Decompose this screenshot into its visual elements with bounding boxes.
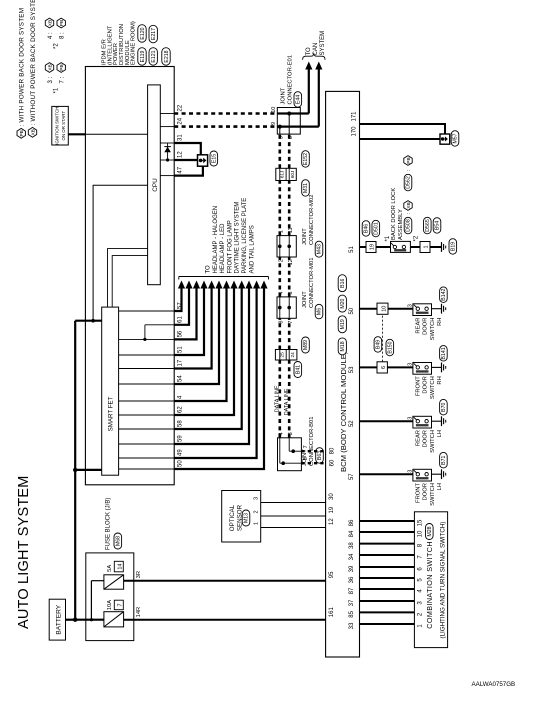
svg-text:59: 59 — [178, 435, 184, 442]
BCM comb pin labels — [349, 519, 355, 629]
fuse block box — [86, 553, 134, 641]
svg-text:AND TAIL LAMPS: AND TAIL LAMPS — [249, 225, 255, 273]
wire headlamp output 6 — [174, 281, 222, 385]
svg-text:CPU: CPU — [152, 178, 159, 192]
note *2 — [45, 18, 65, 49]
connector B54 — [433, 218, 441, 234]
wire headlamp output 2 — [174, 281, 192, 325]
bracket headlamp outputs — [179, 277, 269, 280]
option PB hex — [404, 156, 412, 166]
svg-text:B19: B19 — [451, 242, 457, 251]
label COMBINATION SWITCH — [425, 541, 434, 629]
node battery junction — [73, 618, 77, 622]
wire CPU pin 24 internal — [160, 126, 174, 128]
svg-text:4 :: 4 : — [48, 32, 54, 39]
svg-text:ENGINE ROOM): ENGINE ROOM) — [131, 21, 137, 65]
wire headlamp output 3 — [174, 281, 200, 340]
wire CPU pin 12 internal — [160, 159, 174, 161]
wire CAN pair dashed — [280, 257, 289, 297]
svg-text:3: 3 — [288, 432, 294, 435]
wire CAN pair dashed — [280, 134, 289, 168]
svg-text:LH: LH — [437, 430, 443, 437]
svg-text:JOINT: JOINT — [302, 291, 308, 308]
wire connector 1 to ground — [430, 246, 442, 248]
node trunk-CPU tap — [91, 319, 95, 323]
svg-text:6: 6 — [381, 366, 387, 369]
svg-text:FRONT FOG LAMP: FRONT FOG LAMP — [227, 220, 233, 273]
svg-text:14R: 14R — [136, 607, 142, 618]
svg-text:DOOR: DOOR — [423, 483, 429, 500]
connector M68 — [114, 533, 122, 549]
wire lock assembly to connector 1 — [410, 246, 420, 248]
svg-text:E152: E152 — [303, 153, 309, 165]
svg-text:B49: B49 — [376, 340, 382, 349]
M02 pin numbers — [278, 227, 294, 265]
rear door switch RH chain — [360, 287, 448, 340]
connector E44 — [294, 92, 302, 108]
connector D562 — [404, 169, 412, 191]
back door lock assembly — [391, 241, 411, 252]
connector B150 — [386, 339, 394, 356]
wire headlamp output 10 — [174, 281, 252, 445]
svg-text:: WITHOUT POWER BACK DOOR SYST: : WITHOUT POWER BACK DOOR SYSTEM — [30, 0, 37, 126]
label TO HEADLAMP... — [206, 198, 256, 274]
label *2 — [413, 235, 419, 241]
joint connector M01 box — [277, 297, 296, 318]
svg-text:61: 61 — [178, 315, 184, 322]
wire BCM 171 to M57 — [360, 124, 446, 134]
svg-text:10: 10 — [271, 107, 277, 113]
connector E152 — [302, 151, 310, 168]
svg-text:7: 7 — [288, 321, 294, 324]
svg-text:37: 37 — [349, 599, 355, 606]
svg-text:CAN: CAN — [313, 43, 319, 56]
svg-text:15: 15 — [418, 519, 424, 526]
svg-text:PARKING, LICENSE PLATE: PARKING, LICENSE PLATE — [242, 198, 248, 274]
svg-text:*2: *2 — [54, 43, 60, 49]
drawing number — [472, 681, 516, 688]
svg-text:M57: M57 — [453, 133, 459, 143]
connector M89 — [302, 337, 310, 353]
svg-text:62: 62 — [178, 406, 184, 413]
svg-text:30: 30 — [329, 493, 335, 500]
svg-text:JOINT: JOINT — [302, 228, 308, 245]
svg-text:E119: E119 — [140, 51, 146, 63]
svg-text:M6: M6 — [317, 308, 323, 315]
connector E218 — [162, 48, 170, 66]
svg-text:DAYTIME LIGHT SYSTEM: DAYTIME LIGHT SYSTEM — [235, 202, 241, 274]
svg-text:DOOR: DOOR — [423, 430, 429, 447]
svg-text:51: 51 — [349, 246, 355, 253]
inline connector 19 — [366, 242, 376, 253]
BCM pin 50 label — [349, 307, 355, 314]
note *1 — [45, 63, 65, 94]
BCM pin 171 170 labels — [351, 111, 357, 137]
svg-text:8: 8 — [278, 321, 284, 324]
connector M28 — [426, 524, 434, 540]
wires BCM to combination switch — [360, 521, 415, 624]
svg-text:49: 49 — [178, 449, 184, 456]
svg-text:HEADLAMP - LED: HEADLAMP - LED — [220, 223, 226, 274]
wire pin 31 to E15 — [174, 143, 201, 155]
wire data line to BCM 80 — [301, 450, 325, 452]
wire pin 47 to E15 — [174, 166, 203, 175]
legend XB option — [28, 0, 37, 137]
svg-text:OPTICAL: OPTICAL — [229, 504, 236, 531]
svg-text:24: 24 — [178, 117, 184, 124]
IPDM pin numbers — [178, 104, 184, 467]
BCM pin 51 label — [349, 246, 355, 253]
svg-text:FRONT: FRONT — [416, 376, 422, 396]
svg-text:M28: M28 — [427, 526, 433, 536]
svg-text:SYSTEM: SYSTEM — [320, 31, 326, 56]
connector M57 — [451, 131, 459, 147]
svg-text:B150: B150 — [388, 341, 394, 353]
svg-text:SMART FET: SMART FET — [107, 396, 114, 431]
svg-text:M18: M18 — [340, 341, 346, 351]
svg-text:3: 3 — [407, 417, 413, 420]
wire CAN pair dashed — [280, 181, 289, 236]
joint connector M02 box — [277, 236, 296, 257]
optical sensor box — [222, 491, 261, 543]
svg-text:9: 9 — [271, 122, 277, 125]
svg-text:D501: D501 — [374, 222, 380, 235]
svg-text:TO: TO — [306, 47, 312, 56]
svg-text:33: 33 — [349, 622, 355, 629]
condenser E15 — [198, 155, 208, 166]
svg-text:IGNITION SWITCH: IGNITION SWITCH — [55, 107, 60, 145]
battery — [49, 599, 65, 640]
svg-text:22: 22 — [178, 104, 184, 111]
svg-text:PB: PB — [406, 157, 412, 163]
svg-text:34: 34 — [349, 553, 355, 560]
label JOINT CONNECTOR-B01 — [302, 417, 315, 467]
svg-text:DOOR: DOOR — [423, 318, 429, 335]
title AUTO LIGHT SYSTEM — [16, 475, 32, 629]
wire optical 3 to BCM 30 — [261, 502, 326, 504]
svg-text:BATTERY: BATTERY — [55, 604, 62, 634]
svg-text:CONNECTOR-E01: CONNECTOR-E01 — [288, 55, 294, 105]
wire CPU to FET control 1 — [108, 249, 148, 308]
svg-text:B141: B141 — [441, 347, 447, 359]
diode D1 — [164, 143, 171, 162]
svg-text:E121: E121 — [151, 50, 157, 62]
inline connector 61J/60J — [276, 168, 297, 180]
connector B46 — [362, 221, 370, 237]
connector B49 — [374, 337, 382, 353]
svg-text:4: 4 — [278, 292, 284, 295]
joint connector E44 box — [277, 108, 300, 135]
joint connector B01 box — [278, 438, 302, 471]
BCM pin 95 161 labels — [329, 571, 335, 617]
svg-text:B71: B71 — [441, 455, 447, 464]
svg-text:10: 10 — [381, 306, 387, 312]
wire BCM 170 to M57 — [360, 138, 441, 140]
BCM label — [339, 351, 348, 472]
svg-text:M19: M19 — [340, 319, 346, 329]
svg-text:JOINT: JOINT — [280, 87, 286, 104]
fuse 5A label — [107, 561, 124, 572]
svg-text:39: 39 — [349, 565, 355, 572]
connector E15 — [210, 151, 218, 166]
wire pin 12 to E15 — [174, 159, 197, 161]
svg-text:PB: PB — [59, 20, 65, 26]
svg-text:B41: B41 — [296, 365, 302, 374]
wire CAN pair dashed — [280, 360, 289, 438]
IPDM E/R label — [102, 21, 137, 65]
svg-text:19: 19 — [329, 506, 335, 513]
svg-text:84: 84 — [349, 530, 355, 537]
wire optical 1 to BCM 12 — [261, 527, 326, 529]
svg-text:2: 2 — [278, 259, 284, 262]
connector E119 — [138, 48, 146, 66]
legend PB option — [17, 8, 26, 138]
svg-text:11: 11 — [288, 227, 294, 233]
svg-text:36: 36 — [349, 576, 355, 583]
wire CAN pair dashed — [280, 318, 289, 349]
svg-text:8 :: 8 : — [60, 32, 66, 39]
svg-text:50: 50 — [349, 307, 355, 314]
svg-text:56: 56 — [178, 330, 184, 337]
svg-text:10: 10 — [418, 530, 424, 537]
connector D565 — [424, 217, 432, 234]
svg-text:14: 14 — [117, 564, 123, 570]
label DATA LINE — [274, 385, 289, 415]
svg-text:7 :: 7 : — [60, 76, 66, 83]
svg-text:E218: E218 — [164, 50, 170, 62]
label 14R — [136, 607, 142, 618]
wire trunk drop to SMART FET pin2 — [75, 469, 102, 471]
svg-text:50: 50 — [178, 460, 184, 467]
svg-text:17: 17 — [178, 359, 184, 366]
BCM pin 53 label — [349, 366, 355, 373]
wire link 10-6 dashed — [382, 314, 384, 362]
label JOINT CONNECTOR-E01 — [280, 55, 293, 105]
wire CAN-B through E44 — [277, 125, 319, 135]
BCM pin 52 label — [349, 420, 355, 427]
svg-text:BCM (BODY CONTROL MODULE): BCM (BODY CONTROL MODULE) — [339, 351, 348, 472]
svg-text:CONNECTOR-M02: CONNECTOR-M02 — [309, 195, 315, 245]
wire SMART FET outputs — [119, 311, 175, 469]
fuse 10A label — [107, 600, 124, 610]
BCM top pin numbers — [329, 447, 335, 466]
svg-text:24: 24 — [290, 352, 296, 358]
svg-text:3: 3 — [407, 470, 413, 473]
svg-text:31: 31 — [178, 134, 184, 141]
CPU box — [148, 85, 161, 285]
BCM box — [326, 91, 360, 657]
connector M20 — [338, 295, 346, 312]
svg-text:HEADLAMP - HALOGEN: HEADLAMP - HALOGEN — [213, 206, 219, 274]
svg-text:SWITCH: SWITCH — [430, 318, 436, 341]
svg-text:170: 170 — [351, 126, 357, 137]
svg-text:12: 12 — [329, 518, 335, 525]
svg-text:DATA LINE: DATA LINE — [284, 388, 290, 415]
svg-text:53: 53 — [349, 366, 355, 373]
svg-text:171: 171 — [351, 111, 357, 122]
svg-text:87: 87 — [349, 587, 355, 594]
wire CAN pin24 dashed — [174, 125, 277, 128]
wire battery trunk — [74, 321, 76, 620]
svg-text:52: 52 — [349, 420, 355, 427]
connector B19 — [449, 239, 457, 255]
B01 pin numbers — [278, 432, 309, 460]
wire headlamp output 11 — [174, 281, 260, 459]
svg-text:161: 161 — [329, 607, 335, 618]
svg-text:: WITH POWER BACK DOOR SYSTEM: : WITH POWER BACK DOOR SYSTEM — [19, 8, 26, 127]
wire CAN arrow 2 — [315, 62, 322, 127]
connector B41 — [294, 362, 302, 378]
wire CPU pin 31 internal — [160, 142, 174, 144]
wire branch to fuse 5A — [91, 581, 104, 620]
svg-text:B142: B142 — [441, 289, 447, 301]
svg-text:5A: 5A — [107, 565, 113, 572]
svg-text:TO: TO — [206, 265, 212, 274]
svg-text:1: 1 — [254, 522, 260, 525]
wire battery to fuse 10A — [75, 618, 104, 621]
svg-text:10A: 10A — [107, 600, 113, 610]
svg-text:*2: *2 — [413, 235, 419, 241]
svg-text:E15: E15 — [212, 154, 218, 163]
svg-text:PB: PB — [59, 64, 65, 70]
connector M19 — [338, 316, 346, 333]
wire headlamp output 8 — [174, 281, 237, 416]
wire CPU to FET control 2 — [112, 256, 147, 308]
wire CAN-A through E44 — [277, 112, 309, 135]
svg-text:25: 25 — [280, 352, 286, 358]
svg-text:XB: XB — [406, 202, 412, 208]
wire headlamp output 4 — [174, 281, 207, 356]
combination switch box — [414, 512, 447, 648]
svg-text:ON OR START: ON OR START — [61, 111, 66, 141]
svg-text:M20: M20 — [340, 298, 346, 308]
connector M31 — [302, 180, 310, 197]
wire optical 2 to BCM 19 — [261, 515, 326, 517]
M01 pin numbers — [278, 292, 294, 324]
svg-text:12: 12 — [178, 151, 184, 158]
connector M43 — [315, 241, 323, 257]
inline connector 1 — [420, 242, 430, 253]
svg-text:B54: B54 — [435, 221, 441, 230]
svg-text:1: 1 — [424, 245, 430, 248]
connector M18 — [338, 338, 346, 355]
wire headlamp output 1 — [174, 281, 185, 312]
connector D501 — [372, 220, 380, 237]
svg-text:D508: D508 — [406, 219, 412, 232]
svg-text:E217: E217 — [151, 28, 157, 40]
wire headlamp output 7 — [174, 281, 230, 402]
svg-text:80: 80 — [329, 447, 335, 454]
svg-text:E44: E44 — [296, 95, 302, 104]
svg-text:RH: RH — [437, 318, 443, 326]
svg-text:B16: B16 — [340, 278, 346, 287]
wire ignition inner to CPU — [85, 133, 147, 135]
wire CPU pin 22 internal — [160, 113, 174, 115]
svg-text:54: 54 — [178, 375, 184, 382]
wire CAN arrow 1 — [305, 62, 312, 114]
svg-text:7: 7 — [117, 603, 123, 606]
svg-text:CONNECTOR-M01: CONNECTOR-M01 — [309, 258, 315, 308]
node trunk to smart-fet tap — [73, 468, 77, 472]
wire CPU pin 47 internal — [160, 175, 174, 177]
connector M13 — [242, 510, 250, 526]
connector D508 — [404, 212, 412, 234]
wire battery feed — [66, 619, 76, 621]
label FUSE BLOCK (J/B) — [106, 498, 112, 550]
svg-text:M43: M43 — [317, 244, 323, 254]
connector E217 — [149, 25, 157, 43]
svg-text:SWITCH: SWITCH — [430, 376, 436, 399]
wire 3R to BCM 95 — [124, 580, 326, 582]
svg-text:M31: M31 — [303, 183, 309, 193]
svg-text:FRONT: FRONT — [416, 483, 422, 503]
fuse 5A — [104, 575, 124, 589]
connector E120 — [138, 25, 146, 43]
svg-text:58: 58 — [178, 420, 184, 427]
svg-text:95: 95 — [329, 571, 335, 578]
wire 19 to lock assembly — [376, 246, 391, 248]
fuse 10A — [104, 612, 124, 627]
SMART FET box — [102, 307, 119, 475]
label JOINT CONNECTOR-M01 — [302, 258, 315, 308]
svg-text:DATA LINE: DATA LINE — [274, 385, 280, 412]
wire CAN pin22 dashed — [174, 112, 277, 115]
svg-text:SWITCH: SWITCH — [430, 483, 436, 506]
svg-text:3: 3 — [288, 292, 294, 295]
svg-text:B46: B46 — [364, 224, 370, 233]
svg-text:E120: E120 — [140, 27, 146, 39]
svg-text:FUSE BLOCK (J/B): FUSE BLOCK (J/B) — [106, 498, 112, 550]
svg-text:12: 12 — [288, 259, 294, 265]
svg-text:ASSEMBLY: ASSEMBLY — [398, 209, 404, 240]
svg-text:(LIGHTING AND TURN SIGNAL SWIT: (LIGHTING AND TURN SIGNAL SWITCH) — [439, 522, 446, 639]
svg-text:3: 3 — [254, 497, 260, 500]
connector E121 — [149, 48, 157, 66]
svg-text:57: 57 — [349, 473, 355, 480]
front door switch LH chain — [360, 452, 448, 505]
wire headlamp output 12 — [174, 281, 267, 470]
wire headlamp output 9 — [174, 281, 245, 430]
wire BCM 51 to connector 19 — [360, 246, 367, 248]
brace CAN — [303, 53, 325, 60]
connector B63 — [316, 448, 324, 464]
label TO CAN SYSTEM — [306, 31, 326, 56]
svg-text:M68: M68 — [116, 536, 122, 546]
connector B16 — [338, 275, 346, 292]
front door switch RH chain — [360, 346, 448, 399]
svg-text:XB: XB — [48, 64, 54, 70]
svg-text:61J: 61J — [280, 171, 285, 178]
E44 pin numbers — [271, 107, 294, 140]
label *1 — [385, 235, 391, 241]
svg-text:3R: 3R — [136, 571, 142, 578]
ground B19 — [442, 242, 446, 252]
wire CPU power feed — [93, 185, 148, 320]
rear door switch LH chain — [360, 399, 448, 452]
svg-text:M89: M89 — [303, 340, 309, 350]
option XB hex — [404, 201, 412, 211]
svg-text:85: 85 — [349, 610, 355, 617]
svg-text:3: 3 — [407, 363, 413, 366]
label BACK DOOR LOCK ASSEMBLY — [391, 188, 404, 240]
svg-text:19: 19 — [370, 244, 376, 250]
label LIGHTING AND TURN SIGNAL SWITCH — [439, 522, 446, 639]
condenser M57 — [440, 134, 450, 144]
svg-text:*1: *1 — [54, 87, 60, 93]
svg-text:PB: PB — [19, 130, 25, 136]
svg-text:COMBINATION SWITCH: COMBINATION SWITCH — [425, 541, 434, 629]
svg-text:CONNECTOR-B01: CONNECTOR-B01 — [309, 417, 315, 467]
